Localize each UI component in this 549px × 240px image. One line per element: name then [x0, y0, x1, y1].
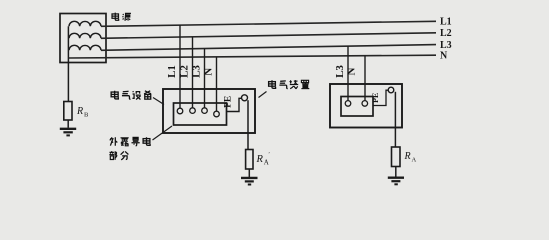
equipment box 2 inner	[341, 97, 373, 117]
wire RA to ground	[395, 167, 397, 177]
svg-text:R: R	[404, 151, 411, 162]
svg-text:PE: PE	[224, 96, 234, 108]
resistor RB	[64, 102, 72, 121]
PE terminal circle box1	[242, 95, 248, 101]
label RB	[76, 106, 89, 119]
svg-text:L1: L1	[166, 65, 178, 78]
wire RA' to ground	[248, 169, 250, 177]
ground under RB (source earth)	[60, 129, 76, 136]
label RA'	[256, 152, 271, 167]
wire RB to ground	[67, 120, 69, 128]
terminal circle L3	[202, 108, 208, 114]
bus L1	[101, 21, 436, 26]
svg-text:L3: L3	[190, 65, 202, 78]
label 电气设备	[111, 91, 151, 100]
label 部分	[109, 151, 128, 160]
tap wire N to box1	[216, 57, 218, 111]
tap wire L3 to box1	[204, 49, 206, 109]
wire PE circle down to RA'	[247, 100, 249, 149]
svg-text:A: A	[412, 157, 417, 164]
resistor RA'	[246, 150, 253, 170]
terminal circle L1	[177, 108, 183, 114]
leader line 电气设备	[153, 98, 164, 105]
svg-text:L3: L3	[440, 40, 452, 51]
svg-text:L3: L3	[334, 65, 346, 78]
equipment box 2 outer	[330, 84, 402, 128]
bus N	[68, 55, 436, 58]
svg-text:L1: L1	[440, 17, 452, 28]
bus L3	[101, 45, 436, 51]
label 电气装置	[269, 80, 310, 89]
power source box (transformer)	[60, 14, 106, 63]
svg-text:N: N	[346, 67, 358, 75]
leader line 电气装置	[259, 92, 267, 98]
winding W2	[69, 33, 101, 38]
winding W1	[69, 21, 101, 26]
tap wire L3 to box2	[347, 46, 349, 101]
bus L2	[101, 33, 436, 39]
ground under RA'	[241, 178, 258, 185]
PE wire box2	[373, 90, 388, 105]
equipment box 1 inner	[174, 103, 227, 125]
label 电源	[112, 13, 131, 21]
winding W3	[69, 45, 101, 50]
svg-text:L2: L2	[440, 28, 452, 39]
terminal circle L3 box2	[345, 101, 351, 107]
svg-text:R: R	[256, 154, 264, 165]
ground under RA	[388, 178, 404, 185]
label RA	[404, 151, 417, 164]
tap wire L1 to box1	[179, 25, 181, 108]
svg-text:N: N	[203, 68, 215, 76]
resistor RA	[392, 147, 401, 167]
label 外露导电	[110, 137, 150, 146]
PE wire box1	[227, 98, 242, 111]
svg-text:PE: PE	[371, 93, 380, 103]
terminal circle L2	[190, 108, 196, 114]
wire PE circle down to RA	[394, 92, 396, 147]
terminal circle N	[214, 111, 220, 117]
tap wire N to box2	[364, 56, 366, 101]
svg-text:R: R	[76, 106, 83, 117]
svg-text:L2: L2	[178, 65, 190, 78]
tap wire L2 to box1	[192, 37, 194, 108]
equipment box 1 outer	[163, 89, 255, 133]
terminal circle N box2	[362, 101, 368, 107]
svg-text:A: A	[264, 159, 269, 167]
svg-text:B: B	[84, 112, 89, 119]
svg-text:N: N	[440, 51, 448, 62]
leader line 外露导电部分	[153, 126, 173, 140]
star-point wire down to RB	[67, 26, 69, 101]
PE terminal circle box2	[388, 87, 394, 93]
